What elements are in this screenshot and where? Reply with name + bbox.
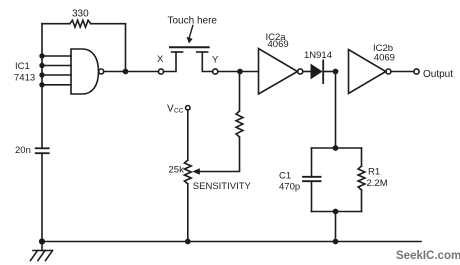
svg-text:470p: 470p bbox=[279, 182, 300, 193]
svg-text:IC1: IC1 bbox=[15, 61, 30, 72]
svg-text:2.2M: 2.2M bbox=[367, 178, 388, 189]
svg-text:X: X bbox=[157, 54, 164, 65]
svg-text:R1: R1 bbox=[368, 167, 380, 178]
svg-text:7413: 7413 bbox=[14, 73, 35, 84]
svg-text:20n: 20n bbox=[15, 145, 31, 156]
svg-text:25k: 25k bbox=[169, 165, 185, 176]
svg-text:SENSITIVITY: SENSITIVITY bbox=[193, 181, 252, 192]
svg-text:Y: Y bbox=[212, 55, 219, 66]
svg-text:4069: 4069 bbox=[268, 39, 289, 50]
svg-text:330: 330 bbox=[72, 9, 89, 20]
svg-text:V: V bbox=[167, 104, 174, 115]
svg-text:C1: C1 bbox=[279, 171, 291, 182]
svg-text:1N914: 1N914 bbox=[304, 50, 332, 61]
svg-text:Touch here: Touch here bbox=[168, 16, 218, 27]
svg-text:4069: 4069 bbox=[374, 53, 395, 64]
svg-text:CC: CC bbox=[174, 108, 184, 115]
svg-text:SeekIC.com: SeekIC.com bbox=[396, 250, 460, 262]
svg-text:Output: Output bbox=[423, 69, 453, 80]
